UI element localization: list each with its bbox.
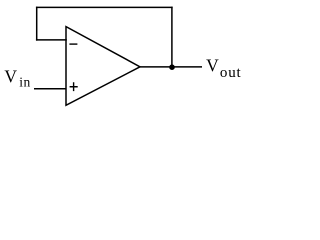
- svg-text:V: V: [4, 66, 17, 86]
- wire feedback top horizontal segment: [36, 6, 173, 8]
- op-amp U1 triangle: [66, 27, 140, 106]
- wire Vin to noninverting input: [34, 88, 66, 90]
- svg-text:in: in: [19, 74, 30, 89]
- op-amp noninverting pin label +: [70, 82, 78, 91]
- op-amp inverting pin label -: [69, 43, 77, 45]
- svg-text:out: out: [220, 65, 242, 81]
- wire output: [140, 66, 202, 68]
- wire inverting-input segment (triangle to feedback corner): [36, 39, 67, 41]
- wire feedback left vertical segment: [36, 7, 38, 41]
- svg-text:V: V: [206, 56, 219, 76]
- wire feedback right vertical segment (down to output node): [171, 7, 173, 67]
- node junction dot at output: [169, 64, 175, 70]
